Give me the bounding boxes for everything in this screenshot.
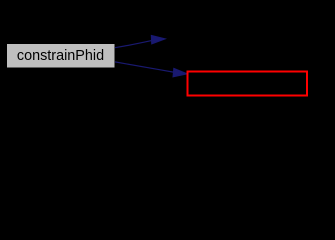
node constrainPhid (current function, grey filled) [7,44,116,69]
node (truncated callee, red outline) [188,72,308,96]
svg-text:constrainPhid: constrainPhid [17,48,104,64]
arrowhead of bottom edge [173,68,187,77]
arrowhead of top edge [151,35,165,44]
edge to red truncated node (wire) [115,62,187,77]
edge to top-right node (wire) [115,35,165,47]
